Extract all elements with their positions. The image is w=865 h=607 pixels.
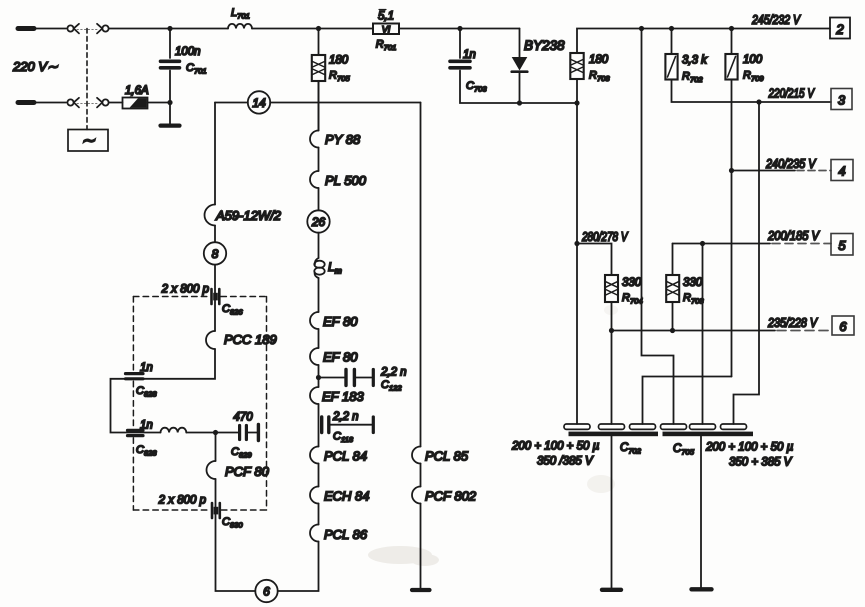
svg-text:280/278 V: 280/278 V [581,230,629,244]
wire: R709 down to 240/235V node [731,80,733,377]
resistor R705 [312,29,325,131]
svg-text:PY 88: PY 88 [325,132,361,147]
label 180 (R705) [329,55,349,67]
svg-text:470: 470 [233,412,253,424]
label 1n (C828 upper) [140,362,153,374]
label R705 [329,70,350,84]
label 2,2n (C122) [380,367,407,379]
svg-text:PL 500: PL 500 [325,173,367,188]
diode BY238 [512,29,528,104]
label 330 (R708b) [683,277,703,289]
junction: 280/278V node [574,241,579,246]
svg-text:200 + 100 + 50 µ: 200 + 100 + 50 µ [705,442,794,454]
svg-text:2,2 n: 2,2 n [380,367,407,379]
label R709 [743,70,764,84]
label 200+100+50u (C702) [511,441,600,453]
node: mains terminal N [18,100,34,105]
wire: H3 link 240V node to plate 3 [643,377,732,425]
label 5,1 [378,10,394,23]
junction: 220V line vertical tap [756,99,761,104]
svg-text:4: 4 [838,164,845,179]
wire: switch coupling (dashed) [86,29,88,130]
wire: 220V tap down, jog to plate 6 [734,102,760,424]
svg-text:350 /385 V: 350 /385 V [537,456,594,468]
junction: top rail / main B+ rail [639,26,644,31]
label 2,2n (C118) [332,411,359,423]
svg-text:5: 5 [838,238,846,253]
plate 5 [690,424,716,429]
label 1,6A [125,85,149,97]
capacitor C703 [450,29,577,104]
label 350+385V (C705) [729,457,793,469]
heater EF183 [310,387,364,404]
wire: 240/235V line to terminal 4 [732,170,832,172]
junction: C122 tap [316,375,321,380]
switch contact S1a-right [97,24,109,34]
inductor: choke on C828b line [161,428,187,433]
wire [318,329,320,348]
wire: live to L701 [109,28,228,30]
junction: live/C703 [457,26,462,31]
label 235/228V [767,316,818,330]
wire: R702 down to 220/215V line [672,80,832,103]
heater PCL85 [412,447,469,464]
label C702 [620,442,642,456]
wire: AC neutral lead-in [33,102,66,104]
svg-text:200/185 V: 200/185 V [767,229,820,243]
wire: 235/228V line to terminal 6 [612,330,833,332]
label 2x800p (C826) [161,284,210,296]
svg-text:220/215 V: 220/215 V [768,87,816,101]
svg-text:VI: VI [382,24,391,34]
label C826 [222,303,243,317]
svg-text:2 x 800 p: 2 x 800 p [158,495,207,507]
switch contact S1b-right [97,98,109,108]
wire: 200V line corner down to R708b [672,244,674,276]
svg-text:EF 80: EF 80 [323,350,358,365]
wire: A59 to node 8 [214,226,216,243]
label 3,3k [682,55,708,67]
heater EF80 (first) [310,312,358,329]
svg-text:26: 26 [311,215,326,229]
svg-text:6: 6 [839,319,847,334]
capacitor C829 (470) [240,425,259,441]
svg-text:180: 180 [589,54,609,66]
svg-text:2 x 800 p: 2 x 800 p [161,284,210,296]
wire: R708b to 235V line [672,302,674,331]
wire [420,464,422,487]
svg-text:2: 2 [835,22,844,37]
wire [318,188,320,210]
main heater chain: R705 to PY88 wire crossing node14 line [318,81,320,131]
wire: faint gap dotting S1a [77,28,98,30]
label 200+100+50u (C705) [705,442,794,454]
wire: faint gap dotting S1b [77,102,98,104]
svg-text:PCC 189: PCC 189 [224,332,277,347]
label 100 (R709) [743,54,763,66]
C705 common bar [663,432,754,437]
heater A59-12W/2 (picture tube) [205,205,282,226]
junction: R708b / 235V line [670,328,675,333]
junction: PCF80 heater tap [213,430,218,435]
resistor R704 (330) [605,275,618,302]
resistor R708 (180, surge) [570,53,583,103]
svg-text:220 V∼: 220 V∼ [12,59,58,74]
svg-text:5,1: 5,1 [378,11,394,23]
switch actuator box with ~ [68,130,108,152]
wire: left heater column top [214,103,216,205]
svg-text:∼: ∼ [81,131,96,150]
svg-text:PCL 85: PCL 85 [425,449,469,464]
label C828 (upper) [136,385,157,399]
svg-text:3: 3 [838,93,846,108]
label C703 [466,80,487,94]
wire: DC top rail (after rectifier) [577,29,830,54]
wire: choke to junction to C829 [186,432,238,434]
svg-text:PCF 80: PCF 80 [225,464,270,479]
svg-text:ECH 84: ECH 84 [324,489,370,504]
label 1n (C703) [463,49,476,61]
label C118 [333,431,354,445]
ground: below PCF802 [412,504,430,591]
ground: chassis below C701 [161,103,180,126]
node 6 (circle) [255,580,277,602]
label 2x800p (C830) [158,495,207,507]
svg-text:6: 6 [263,585,270,599]
svg-text:BY238: BY238 [524,38,565,53]
wire: plate 5 drop [702,244,704,425]
resistor R708b (330) [666,275,679,302]
wire: 280V node to R704 [577,244,612,276]
wire [318,464,320,487]
electrolytic bank C702: plate 1 [564,424,590,429]
svg-text:1n: 1n [140,420,153,432]
label 245/232V [751,13,801,27]
terminal box 2 [830,18,850,39]
terminal box 5 [831,234,853,256]
svg-text:1n: 1n [463,49,476,61]
junction: live/C701 [167,26,172,31]
resistor R702 (3,3k) [665,29,677,80]
wire: R701 to diode [399,28,520,30]
svg-text:330: 330 [683,277,703,289]
svg-text:100n: 100n [175,46,201,58]
terminal box 4 [831,160,853,181]
wire: right parallel column from node14 line [420,103,422,447]
label 1n (C828 lower) [140,420,153,432]
svg-text:100: 100 [743,54,763,66]
wire: junction down to PCF80 [215,433,217,462]
svg-text:PCL 86: PCL 86 [324,527,368,542]
inductor L701 [228,24,252,29]
svg-text:EF 183: EF 183 [322,389,364,404]
heater PCF80 [207,461,270,479]
wire: L701 to R701 [252,28,373,30]
heater PCF802 [412,487,477,504]
label C830 [222,516,243,530]
wire: AC live lead-in [33,28,66,30]
svg-text:14: 14 [252,96,266,110]
wire [318,365,320,387]
heater EF80 (second) [310,348,358,365]
fuse 1,6A [123,98,148,109]
label Lm [328,260,342,276]
node: mains terminal L [18,26,34,31]
capacitor C828 (lower 1n) [128,430,144,435]
svg-text:330: 330 [622,277,642,289]
wire: 280V rail down to C702 bank plate 1 [576,103,578,424]
svg-text:200 + 100 + 50 µ: 200 + 100 + 50 µ [511,441,600,453]
junction: top rail / R702 [669,26,674,31]
node 26 (circle) [307,210,329,232]
label 240/235V [765,157,817,171]
wire [318,504,320,525]
svg-text:240/235 V: 240/235 V [765,157,817,171]
label 220/215V [768,87,816,101]
heater PY88 [310,131,361,148]
svg-text:180: 180 [329,55,349,67]
node 14 (circle) [248,91,270,113]
switch contact S1a-left [67,24,79,34]
label R704 [622,292,643,306]
electrolytic bank C705: plate 4 [661,424,687,429]
svg-text:A59-12W/2: A59-12W/2 [215,208,282,223]
node 8 (circle) [204,242,226,264]
label R708b [683,292,704,306]
svg-text:235/228 V: 235/228 V [767,316,818,330]
wire: 200/185V line [673,243,832,245]
junction: R708 bottom / diode DC [574,100,579,105]
heater PL500 [310,171,367,188]
svg-text:350 + 385 V: 350 + 385 V [729,457,793,469]
junction: diode cathode / DC line [517,100,522,105]
wire: main B+ rail down, jog to plate 4 [642,29,674,425]
wire [318,148,320,172]
label 330 (R704) [622,277,642,289]
wire: neutral to fuse [109,102,123,104]
label 180 (R708) [589,54,609,66]
svg-text:1n: 1n [140,362,153,374]
wire: PCF80 through C830 to bottom rail [216,479,256,591]
wire [318,278,320,312]
capacitor C701 [161,29,180,103]
svg-text:8: 8 [212,247,219,261]
junction: 240/235V node [729,168,734,173]
terminal box 3 [831,89,852,110]
label C829 [231,446,252,460]
wire [318,233,320,258]
label C701 [186,62,207,76]
junction: 200V line / plate 5 tap [700,241,705,246]
label 100n [175,46,201,58]
label C828 (lower) [136,444,157,458]
junction: neutral/C701 [167,100,172,105]
label 220 V~ [12,59,58,74]
label 280/278V [581,230,629,244]
feedthrough capacitor C826 [212,289,220,304]
label 200/185V [767,229,820,243]
heater PCC189 [206,331,277,349]
wire: PCC189 down, left to C828a, U-link down to C828b line [111,349,216,433]
label BY238 [524,38,565,53]
wire: node 8 through C826 to PCC189 [214,265,216,331]
heater PCL84 [310,447,367,464]
wire: fuse to junction [148,102,171,104]
label 350/385V (C702) [537,456,594,468]
capacitor C828 (upper 1n) [126,374,144,379]
resistor R709 (100) [725,29,737,80]
junction: top rail / R709 [729,26,734,31]
plate 3 [630,424,656,429]
wire: heater feed line (node 14) [215,102,421,104]
svg-text:1,6A: 1,6A [125,85,149,97]
label 470 [233,412,253,424]
wire: node 6 to main chain bottom [278,542,319,592]
label L701 [231,7,250,21]
shield box (dashed) [133,297,266,511]
plate 6 [721,424,747,429]
switch contact S1b-left [67,98,79,108]
resistor R701 [373,24,399,35]
capacitor C118 (2,2n) [322,417,374,433]
wire [318,404,320,447]
junction: R704 / 235V line [609,328,614,333]
C702 common bar [569,432,659,437]
heater ECH84 [310,487,370,504]
svg-text:2,2 n: 2,2 n [332,411,359,423]
heater PCL86 [310,525,368,543]
feedthrough capacitor C830 [212,503,220,518]
ground: below C702 bank [602,436,621,590]
label R702 [682,71,703,85]
wire: R704 to 235V line and down to plate 2 [611,302,613,424]
label C122 [381,379,402,393]
inductor Lm [314,258,324,278]
ground: below C705 bank [692,436,712,589]
label C705 [673,443,695,457]
svg-text:PCL 84: PCL 84 [324,449,367,464]
junction: live/R705 [316,26,321,31]
terminal box 6 [832,316,854,335]
svg-text:EF 80: EF 80 [323,314,358,329]
plate 2 [599,424,625,429]
label R701 [376,39,397,53]
label R708 [589,70,610,84]
capacitor C122 (2,2n) [319,370,374,386]
svg-text:PCF 802: PCF 802 [425,489,477,504]
svg-text:3,3 k: 3,3 k [682,55,708,67]
svg-text:245/232 V: 245/232 V [751,13,801,27]
